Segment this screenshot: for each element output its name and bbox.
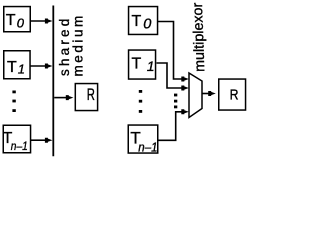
svg-text:n–1: n–1 [138, 140, 157, 155]
svg-text:0: 0 [17, 16, 25, 31]
svg-text:n–1: n–1 [11, 140, 28, 153]
svg-text:medium: medium [70, 13, 85, 76]
svg-text:T: T [132, 55, 142, 72]
svg-text:T: T [6, 12, 16, 29]
svg-text:T: T [132, 13, 142, 30]
svg-text:T: T [7, 59, 17, 76]
svg-text:multiplexor: multiplexor [190, 3, 208, 72]
svg-text:1: 1 [147, 58, 155, 74]
svg-text:R: R [87, 86, 95, 105]
svg-text:0: 0 [143, 16, 151, 32]
svg-text:R: R [230, 86, 239, 102]
svg-text:1: 1 [18, 61, 25, 76]
